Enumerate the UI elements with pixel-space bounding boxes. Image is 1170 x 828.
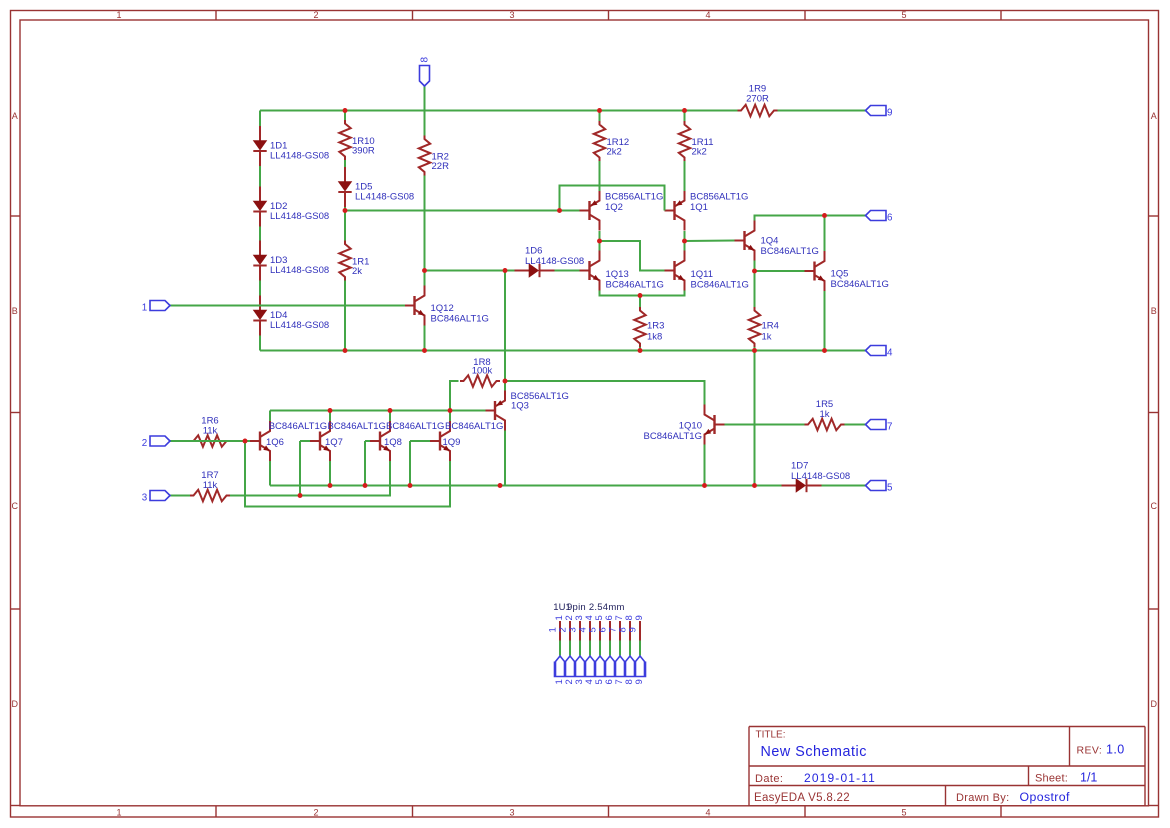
wire: D1-D2 <box>259 166 261 187</box>
svg-text:9: 9 <box>887 108 892 119</box>
svg-text:BC846ALT1G: BC846ALT1G <box>269 421 327 432</box>
wire: Q1/Q11 node to Q4 base <box>685 240 735 243</box>
resistor R4 (1R4/1k) <box>749 307 779 347</box>
junction: lower rail / Q9 base drop <box>408 483 413 488</box>
svg-text:BC846ALT1G: BC846ALT1G <box>386 421 444 432</box>
svg-text:2k2: 2k2 <box>692 147 707 158</box>
wire: Q5 emitter to bottom rail <box>824 291 826 351</box>
U1 pin 7 <box>608 615 626 684</box>
svg-text:BC846ALT1G: BC846ALT1G <box>606 279 664 290</box>
svg-text:1R3: 1R3 <box>647 321 664 332</box>
wire: top rail to port 9 <box>778 110 866 112</box>
junction: Q4 emitter / Q5 base / R4 <box>752 269 757 274</box>
wire: Q3 collector to lower rail <box>504 431 506 486</box>
svg-text:D: D <box>12 699 19 709</box>
svg-text:BC846ALT1G: BC846ALT1G <box>445 421 503 432</box>
connector U1 (1U1 9pin 2.54mm) <box>553 602 624 613</box>
svg-text:22R: 22R <box>432 161 450 172</box>
wire: collector rail to Q3 base <box>270 410 486 412</box>
frame column numbers bottom <box>116 808 906 818</box>
U1 pin 1 <box>548 615 566 684</box>
U1 pin 6 <box>598 615 616 684</box>
wire: Q7 base link <box>300 440 310 442</box>
svg-text:2019-01-11: 2019-01-11 <box>804 771 876 785</box>
frame column numbers top <box>116 10 906 20</box>
svg-text:BC846ALT1G: BC846ALT1G <box>761 246 819 257</box>
wire: top rail to R12 <box>599 111 601 122</box>
resistor R11 (1R11/2k2) <box>679 121 714 161</box>
svg-text:B: B <box>1151 306 1157 316</box>
wire: port 3 to R7 <box>170 495 190 497</box>
junction: lower rail / R4 column <box>752 483 757 488</box>
wire: Q13/Q11 emitters <box>600 291 685 296</box>
transistor Q10 (BC846ALT1G) <box>644 405 725 445</box>
svg-text:1Q2: 1Q2 <box>605 202 623 213</box>
wire: emitter node to R3 <box>639 296 641 308</box>
svg-text:5: 5 <box>901 808 906 818</box>
svg-text:LL4148-GS08: LL4148-GS08 <box>270 151 329 162</box>
svg-text:1: 1 <box>116 10 121 20</box>
wire: Q2/Q13 node to Q11 base <box>600 241 665 271</box>
svg-text:BC856ALT1G: BC856ALT1G <box>690 192 748 203</box>
svg-text:390R: 390R <box>352 146 375 157</box>
wire: port2 net to Q9 emitter <box>245 441 450 507</box>
svg-text:1Q9: 1Q9 <box>443 437 461 448</box>
wire: rail to Q7 collector <box>329 411 331 422</box>
wire: Q10 emitter down <box>704 445 706 486</box>
port 2 <box>142 436 170 449</box>
svg-text:TITLE:: TITLE: <box>756 730 786 741</box>
junction: Q2 base / cross-couple <box>557 208 562 213</box>
diode D7 (1D7/LL4148-GS08) <box>782 461 851 493</box>
svg-text:3: 3 <box>509 10 514 20</box>
wire: top rail <box>260 110 738 112</box>
resistor R6 (1R6/11k) <box>190 415 230 446</box>
svg-text:5: 5 <box>901 10 906 20</box>
svg-text:1Q1: 1Q1 <box>690 202 708 213</box>
wire: node to R4 <box>754 271 756 307</box>
wire: rail to Q8 collector <box>389 411 391 422</box>
svg-text:BC846ALT1G: BC846ALT1G <box>831 279 889 290</box>
svg-text:New Schematic: New Schematic <box>761 744 867 760</box>
junction: Q2-Q13 collectors <box>597 239 602 244</box>
transistor Q13 (BC846ALT1G) <box>580 251 664 291</box>
U1 body outline <box>555 662 646 677</box>
svg-text:1/1: 1/1 <box>1080 771 1097 785</box>
wire: Q7 emitter down <box>329 461 331 486</box>
junction: R8 / Q3 emitter <box>503 379 508 384</box>
svg-text:B: B <box>12 306 18 316</box>
junction: top rail / R10 <box>343 108 348 113</box>
title block <box>749 727 1145 806</box>
port 9 <box>866 106 893 119</box>
port 8 (net flag, pointing down) <box>419 57 430 87</box>
svg-text:BC846ALT1G: BC846ALT1G <box>431 313 489 324</box>
transistor Q11 (BC846ALT1G) <box>665 251 749 291</box>
title block texts <box>754 730 1125 805</box>
U1 pin 4 <box>578 615 596 684</box>
svg-text:Sheet:: Sheet: <box>1035 773 1068 785</box>
wire: port 1 to Q12 base <box>170 305 405 307</box>
wire: Q8 base link <box>365 440 370 442</box>
wire: bottom rail to lower rail <box>754 351 756 486</box>
wire: port 2 to Q6 base <box>170 440 250 442</box>
wire: rail to Q9 collector <box>449 411 451 422</box>
wire: drop to R8 node <box>504 271 506 382</box>
wire: top rail to R10 <box>344 111 346 121</box>
svg-text:3: 3 <box>142 493 148 504</box>
svg-text:11k: 11k <box>203 480 218 491</box>
transistor Q3 (BC856ALT1G) <box>485 391 569 431</box>
svg-text:A: A <box>1151 111 1157 121</box>
svg-text:1Q3: 1Q3 <box>511 401 529 412</box>
svg-text:EasyEDA V5.8.22: EasyEDA V5.8.22 <box>754 792 850 804</box>
svg-text:BC856ALT1G: BC856ALT1G <box>605 192 663 203</box>
wire: Q9 base link <box>410 440 430 442</box>
diode D3 (1D3/LL4148-GS08) <box>253 241 329 281</box>
wire: D7 to port 5 <box>822 485 866 487</box>
wire: Q3 emitter up <box>504 381 506 391</box>
diode D5 (1D5/LL4148-GS08) <box>338 167 414 207</box>
svg-text:1Q6: 1Q6 <box>266 437 284 448</box>
port 3 <box>142 491 170 504</box>
svg-text:3: 3 <box>509 808 514 818</box>
junction: bottom rail / Q5 emitter <box>822 348 827 353</box>
transistor Q12 (BC846ALT1G) <box>405 286 489 326</box>
wire: cross-couple to Q1 base <box>560 186 665 211</box>
wire: R3 to bottom rail <box>639 347 641 351</box>
junction: base rail / Q8 collector <box>388 408 393 413</box>
wire: Q6 emitter down <box>269 461 271 486</box>
wire: port 8 to R2 <box>424 86 426 136</box>
resistor R10 (1R10/390R) <box>339 120 375 160</box>
wire: R12 to Q2 emitter <box>599 161 601 191</box>
wire: rail to Q6 collector <box>269 411 271 422</box>
junction: D6 node <box>503 268 508 273</box>
wire: D4 to bottom rail <box>259 336 261 351</box>
junction: port 3 net / Q7 base drop <box>298 493 303 498</box>
svg-text:BC846ALT1G: BC846ALT1G <box>328 421 386 432</box>
svg-text:8: 8 <box>419 57 430 63</box>
svg-text:LL4148-GS08: LL4148-GS08 <box>270 320 329 331</box>
wire: R10 to D5 <box>344 160 346 167</box>
resistor R12 (1R12/2k2) <box>594 121 629 161</box>
svg-text:A: A <box>12 111 18 121</box>
wire: Q2 collector to Q13 collector <box>599 231 601 251</box>
U1 pin 9 <box>628 615 646 684</box>
svg-text:1k: 1k <box>819 409 829 420</box>
svg-text:9: 9 <box>634 615 645 620</box>
port 6 <box>866 211 894 224</box>
wire: R5 to port 7 <box>845 424 866 426</box>
transistor Q6 (BC846ALT1G) <box>250 421 327 461</box>
diode D2 (1D2/LL4148-GS08) <box>253 187 329 227</box>
svg-text:2: 2 <box>142 438 147 449</box>
transistor Q4 (BC846ALT1G) <box>735 221 819 261</box>
svg-text:9: 9 <box>634 679 645 684</box>
junction: port 2 net <box>243 439 248 444</box>
wire: R11 to Q1 emitter <box>684 161 686 191</box>
svg-text:1.0: 1.0 <box>1106 743 1125 757</box>
junction: R2 / Q12 collector node <box>422 268 427 273</box>
svg-text:1: 1 <box>142 303 147 314</box>
svg-text:BC846ALT1G: BC846ALT1G <box>644 431 702 442</box>
svg-text:LL4148-GS08: LL4148-GS08 <box>270 211 329 222</box>
wire: top rail to R11 <box>684 111 686 122</box>
wire: R2 to node <box>424 176 426 271</box>
svg-text:11k: 11k <box>203 425 218 436</box>
svg-text:5: 5 <box>887 483 893 494</box>
junction: base rail / Q7 collector <box>328 408 333 413</box>
wire: Q8 base drop <box>364 441 366 486</box>
svg-text:4: 4 <box>705 10 710 20</box>
port 7 <box>866 420 893 433</box>
wire: R8 left to base rail <box>450 381 459 411</box>
svg-text:C: C <box>12 501 19 511</box>
wire: Q1 collector to Q11 collector <box>684 231 686 251</box>
wire: Q9 base drop <box>409 441 411 486</box>
frame row letters right <box>1151 111 1158 709</box>
transistor Q1 (BC856ALT1G) <box>665 191 749 231</box>
resistor R1 (1R1/2k) <box>339 241 369 281</box>
wire: Q4 collector to port 6 <box>755 216 866 221</box>
svg-text:4: 4 <box>887 348 893 359</box>
svg-text:LL4148-GS08: LL4148-GS08 <box>270 265 329 276</box>
wire: top rail corner to D1 anode <box>259 111 261 127</box>
junction: top rail / R11 <box>682 108 687 113</box>
resistor R7 (1R7/11k) <box>190 470 230 501</box>
wire: Q8 emitter to port3 net <box>300 461 390 496</box>
wire: Q5 collector to port 6 rail <box>824 216 826 252</box>
transistor Q8 (BC846ALT1G) <box>370 421 444 461</box>
wire: R8 node to Q10 collector <box>505 381 705 405</box>
svg-text:D: D <box>1151 699 1158 709</box>
U1 pin 2 <box>558 615 576 684</box>
svg-text:LL4148-GS08: LL4148-GS08 <box>525 256 584 267</box>
wire: R7 to node <box>230 495 300 497</box>
wire: R4 to bottom rail <box>754 347 756 351</box>
wire: Q12 emitter down <box>424 326 426 351</box>
resistor R2 (1R2/22R) <box>419 136 449 176</box>
resistor R9 (1R9/270R) <box>738 84 778 117</box>
resistor R8 (1R8/100k) <box>460 357 500 387</box>
resistor R5 (1R5/1k) <box>805 399 845 430</box>
wire: Q4 emitter down <box>754 261 756 272</box>
diode D1 (1D1/LL4148-GS08) <box>253 126 329 166</box>
junction: port6 rail / Q5 collector <box>822 213 827 218</box>
wire: Q7 base drop <box>299 441 301 496</box>
wire: R1 to bottom rail <box>344 281 346 351</box>
junction: mid rail <box>343 208 348 213</box>
svg-text:Date:: Date: <box>755 773 783 785</box>
transistor Q2 (BC856ALT1G) <box>580 191 664 231</box>
junction: bottom rail / Q12 emitter <box>422 348 427 353</box>
svg-text:2k2: 2k2 <box>607 147 622 158</box>
wire: Q12 collector up <box>424 271 426 286</box>
U1 pin 8 <box>618 615 636 684</box>
svg-text:1Q7: 1Q7 <box>325 437 343 448</box>
transistor Q7 (BC846ALT1G) <box>310 421 386 461</box>
U1 pin 3 <box>568 615 586 684</box>
svg-text:1D6: 1D6 <box>525 246 542 257</box>
svg-text:Opostrof: Opostrof <box>1020 790 1071 804</box>
junction: lower rail node <box>498 483 503 488</box>
svg-text:100k: 100k <box>472 366 493 377</box>
svg-text:270R: 270R <box>746 94 769 105</box>
svg-text:C: C <box>1151 501 1158 511</box>
frame row letters left <box>12 111 19 709</box>
wire: D5 to R1 <box>344 207 346 241</box>
junction: top rail / R12 <box>597 108 602 113</box>
diode D6 (1D6/LL4148-GS08) <box>515 246 585 278</box>
wire: D3-D4 <box>259 281 261 296</box>
svg-text:REV:: REV: <box>1077 745 1103 757</box>
wire: mid rail to Q2 base <box>345 210 580 212</box>
svg-text:9: 9 <box>628 627 639 632</box>
junction: Q1-Q11 collectors <box>682 239 687 244</box>
transistor Q5 (BC846ALT1G) <box>805 251 889 291</box>
transistor Q9 (BC846ALT1G) <box>430 421 503 461</box>
junction: flip-flop emitters / R3 <box>638 293 643 298</box>
svg-text:1D7: 1D7 <box>791 461 808 472</box>
wire: D6 cathode to Q13 base <box>555 270 580 272</box>
svg-text:2k: 2k <box>352 266 362 277</box>
junction: base rail / R8 drop / Q9 collector <box>448 408 453 413</box>
wire: Q10 base to R5 <box>725 424 805 426</box>
svg-text:1k8: 1k8 <box>647 331 662 342</box>
junction: lower rail / Q10 emitter <box>702 483 707 488</box>
svg-text:2: 2 <box>313 808 318 818</box>
port 1 <box>142 301 170 314</box>
diode D4 (1D4/LL4148-GS08) <box>253 296 329 336</box>
wire: node to D6 <box>425 270 506 272</box>
svg-text:7: 7 <box>887 422 892 433</box>
svg-text:1: 1 <box>116 808 121 818</box>
svg-text:LL4148-GS08: LL4148-GS08 <box>791 471 850 482</box>
svg-text:2: 2 <box>313 10 318 20</box>
wire: node to Q5 base <box>755 270 805 272</box>
svg-text:1k: 1k <box>762 331 772 342</box>
svg-text:BC846ALT1G: BC846ALT1G <box>691 279 749 290</box>
junction: lower rail / Q7 emitter <box>328 483 333 488</box>
wire: bottom rail to port 4 <box>260 350 866 352</box>
junction: lower rail / Q8 base drop <box>363 483 368 488</box>
port 4 <box>866 346 894 359</box>
resistor R3 (1R3/1k8) <box>634 307 664 347</box>
junction: bottom rail / R1 <box>343 348 348 353</box>
wire: lower rail to D7 <box>270 485 782 487</box>
wire: D2-D3 <box>259 227 261 241</box>
svg-text:4: 4 <box>705 808 710 818</box>
svg-text:1Q8: 1Q8 <box>384 437 402 448</box>
svg-text:Drawn By:: Drawn By: <box>956 792 1009 804</box>
svg-text:9pin 2.54mm: 9pin 2.54mm <box>567 602 625 613</box>
wire: to D6 anode <box>505 270 515 272</box>
svg-text:1R4: 1R4 <box>762 321 779 332</box>
junction: bottom rail / R4 <box>752 348 757 353</box>
svg-text:6: 6 <box>887 213 893 224</box>
U1 pin 5 <box>588 615 606 684</box>
junction: bottom rail / R3 <box>638 348 643 353</box>
svg-text:LL4148-GS08: LL4148-GS08 <box>355 192 414 203</box>
port 5 <box>866 481 894 494</box>
